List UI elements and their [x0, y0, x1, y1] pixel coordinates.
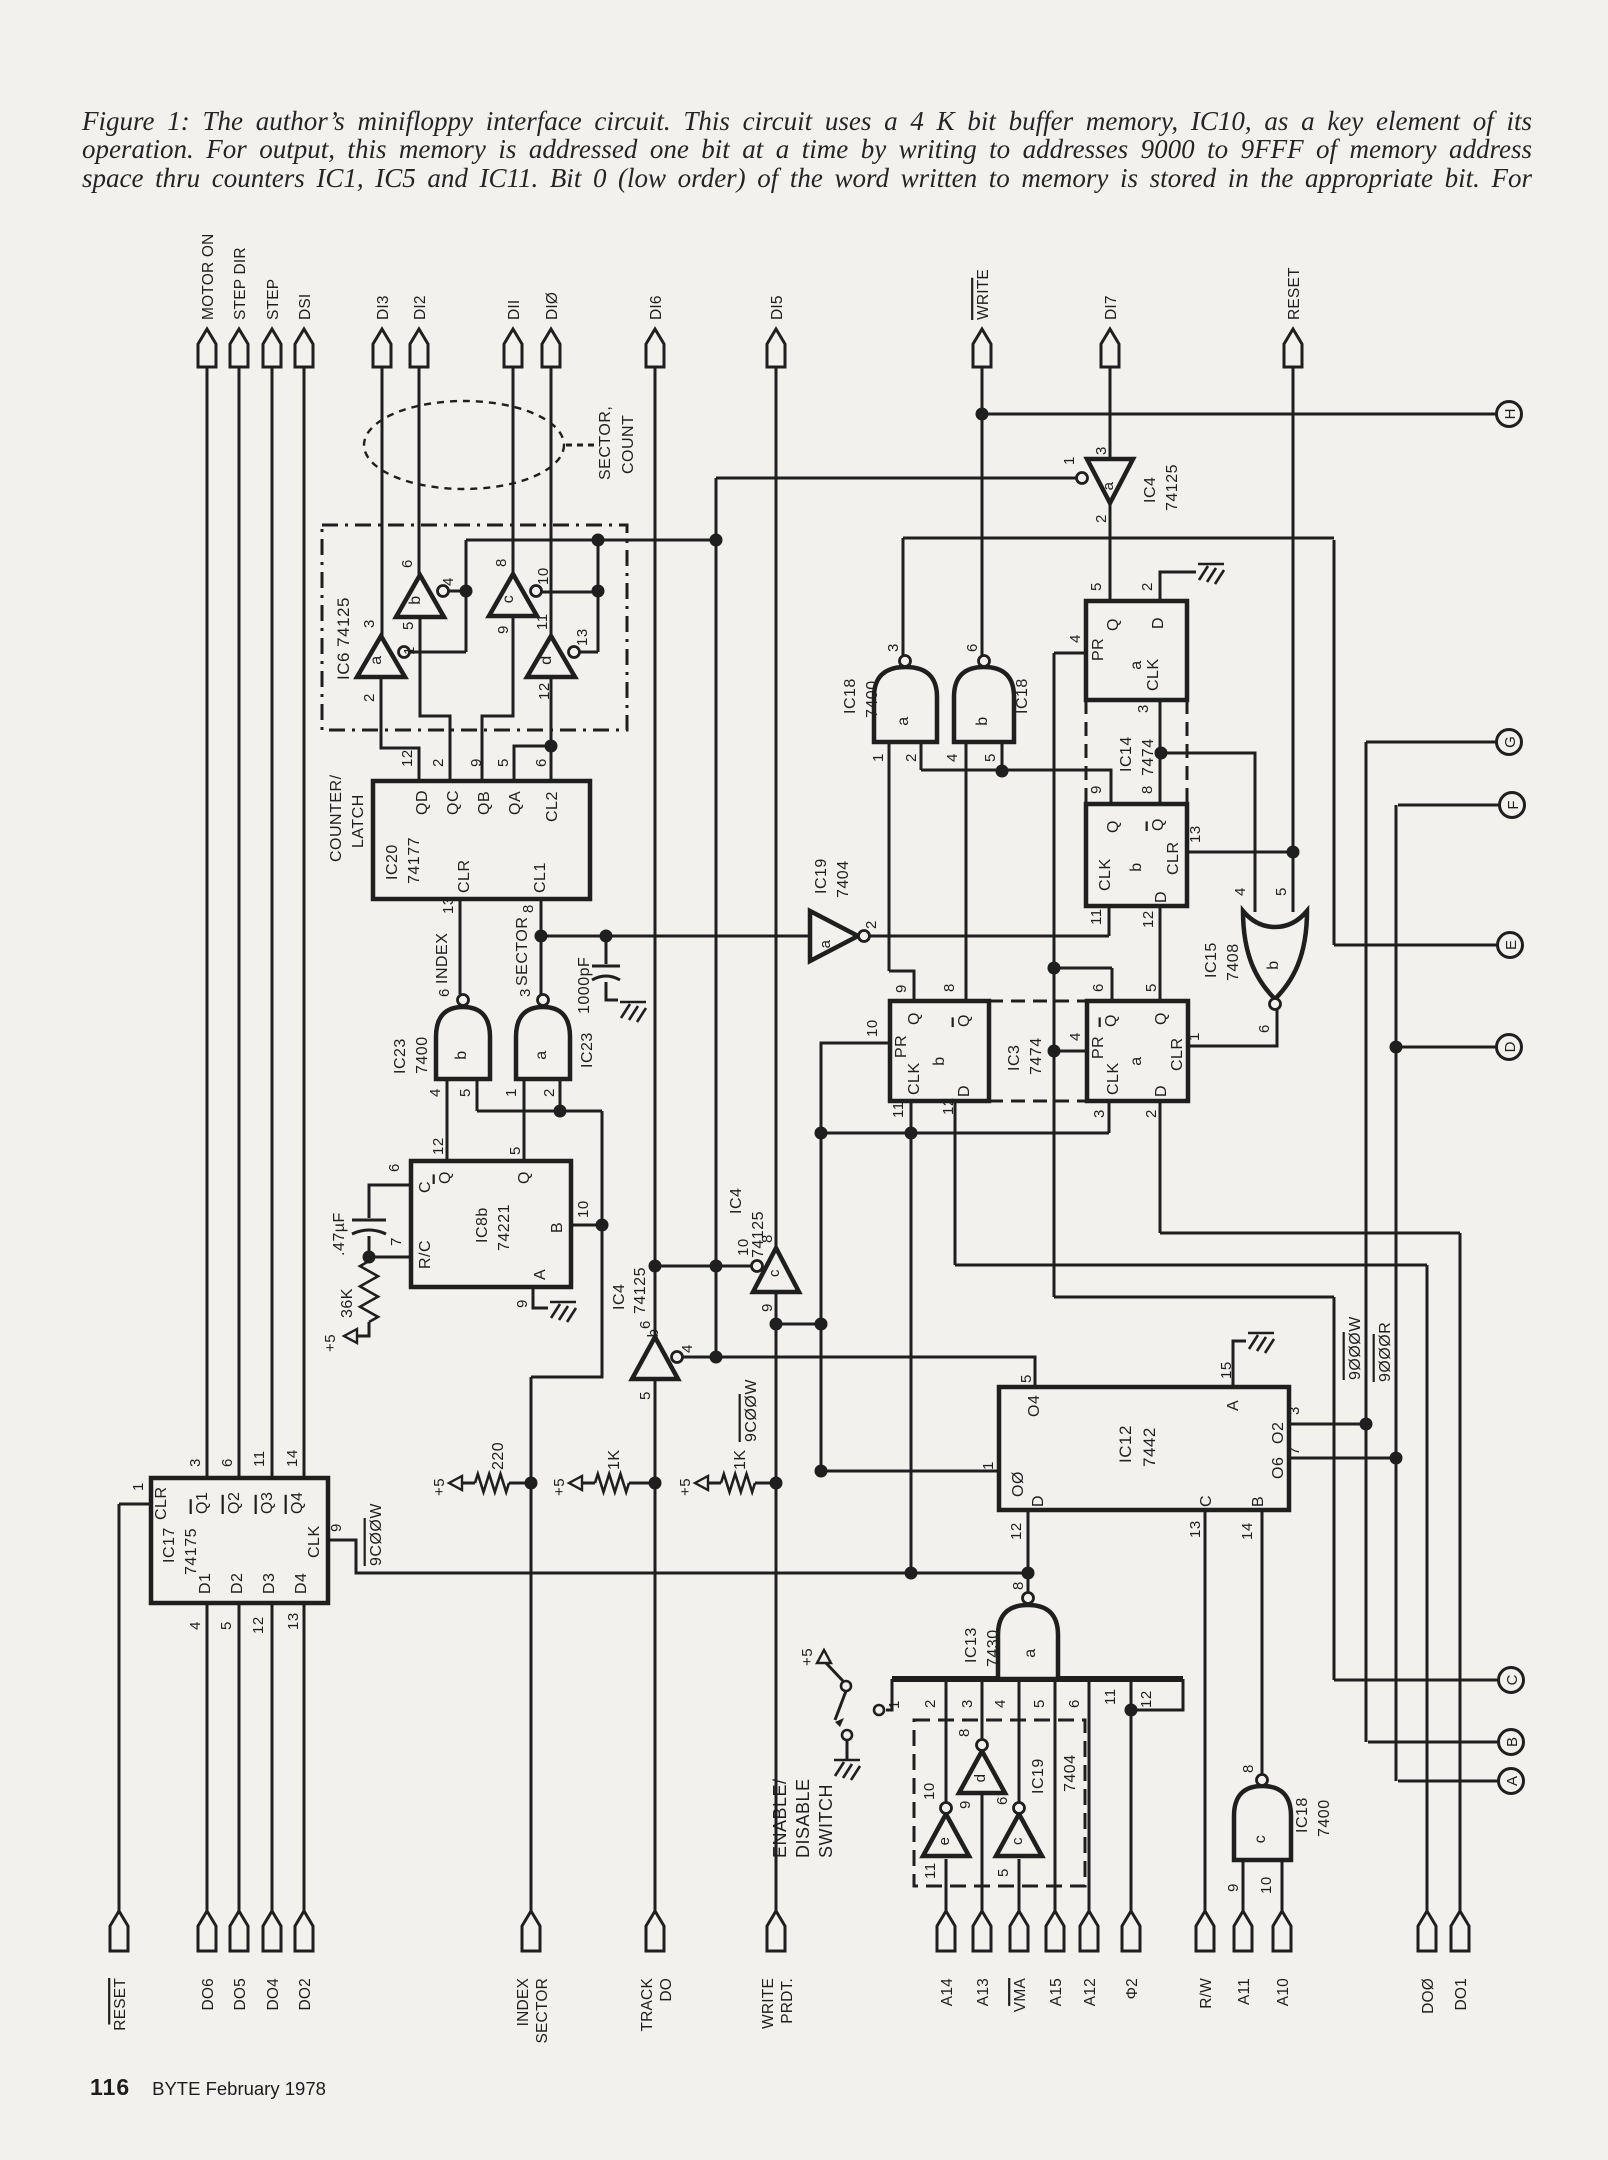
svg-text:Q4: Q4: [289, 1492, 306, 1514]
svg-text:c: c: [500, 595, 517, 604]
svg-text:IC19: IC19: [1030, 1758, 1047, 1794]
svg-text:1: 1: [886, 1700, 903, 1709]
svg-text:6: 6: [219, 1458, 236, 1467]
svg-text:9: 9: [328, 1523, 345, 1532]
svg-text:R/C: R/C: [417, 1240, 434, 1269]
svg-text:DI2: DI2: [412, 295, 429, 320]
svg-text:Q: Q: [906, 1012, 923, 1025]
svg-text:1000pF: 1000pF: [576, 957, 593, 1014]
svg-text:IC18: IC18: [1014, 678, 1031, 714]
svg-text:b: b: [1128, 862, 1145, 871]
svg-text:D2: D2: [229, 1573, 246, 1594]
svg-text:CL2: CL2: [544, 791, 561, 822]
svg-text:1: 1: [130, 1482, 147, 1491]
svg-text:A: A: [532, 1269, 549, 1280]
svg-text:9: 9: [495, 625, 512, 634]
svg-text:2: 2: [922, 1699, 939, 1708]
svg-text:5: 5: [1143, 983, 1160, 992]
svg-text:IC8b: IC8b: [474, 1207, 491, 1243]
svg-text:e: e: [936, 1837, 953, 1846]
svg-text:B: B: [1504, 1737, 1521, 1747]
svg-text:PRDT.: PRDT.: [779, 1978, 796, 2024]
svg-text:IC6 74125: IC6 74125: [334, 597, 353, 680]
svg-text:3: 3: [1286, 1406, 1303, 1415]
svg-text:CLR: CLR: [456, 859, 473, 893]
svg-text:CLR: CLR: [1165, 841, 1182, 875]
svg-text:A15: A15: [1048, 1978, 1065, 2006]
svg-text:+5: +5: [322, 1334, 339, 1352]
svg-text:d: d: [538, 655, 555, 664]
svg-text:74125: 74125: [632, 1267, 649, 1314]
svg-text:15: 15: [1218, 1361, 1235, 1379]
svg-text:F: F: [1505, 800, 1522, 809]
svg-text:VMA: VMA: [1012, 1978, 1029, 2013]
svg-text:12: 12: [430, 1137, 447, 1155]
svg-text:3: 3: [1093, 446, 1110, 455]
svg-text:QC: QC: [445, 790, 462, 815]
svg-text:CLK: CLK: [1145, 658, 1162, 691]
svg-text:4: 4: [992, 1699, 1009, 1708]
svg-text:A13: A13: [975, 1978, 992, 2006]
svg-text:13: 13: [1187, 825, 1204, 843]
svg-text:13: 13: [285, 1612, 302, 1630]
svg-text:b: b: [974, 716, 991, 725]
svg-text:7404: 7404: [1062, 1754, 1079, 1792]
svg-text:IC14: IC14: [1118, 736, 1135, 772]
svg-text:PR: PR: [1090, 1036, 1107, 1059]
svg-text:9ØØØR: 9ØØØR: [1377, 1322, 1394, 1382]
svg-text:IC23: IC23: [392, 1038, 409, 1074]
svg-text:12: 12: [1140, 910, 1157, 928]
svg-text:6: 6: [436, 988, 453, 997]
svg-text:74125: 74125: [1164, 464, 1181, 511]
svg-text:SECTOR: SECTOR: [514, 917, 531, 986]
svg-text:a: a: [1128, 660, 1145, 669]
svg-text:DO1: DO1: [1453, 1978, 1470, 2010]
svg-text:WRITE: WRITE: [760, 1978, 777, 2029]
svg-text:D: D: [1030, 1495, 1047, 1507]
svg-text:Q1: Q1: [194, 1492, 211, 1514]
svg-text:COUNTER/: COUNTER/: [328, 774, 345, 862]
svg-text:DOØ: DOØ: [1420, 1978, 1437, 2014]
svg-text:5: 5: [400, 621, 417, 630]
svg-text:8: 8: [1010, 1581, 1027, 1590]
svg-text:B: B: [549, 1222, 566, 1233]
svg-text:5: 5: [982, 753, 999, 762]
svg-text:SECTOR: SECTOR: [534, 1978, 551, 2044]
svg-text:9CØØW: 9CØØW: [368, 1503, 385, 1566]
svg-text:8: 8: [1139, 785, 1156, 794]
svg-text:A14: A14: [939, 1978, 956, 2006]
svg-text:a: a: [1022, 1648, 1039, 1657]
svg-text:DI6: DI6: [648, 295, 665, 320]
svg-text:9: 9: [468, 758, 485, 767]
svg-text:4: 4: [1232, 887, 1249, 896]
svg-text:7400: 7400: [1316, 1799, 1333, 1837]
svg-text:9: 9: [957, 1800, 974, 1809]
svg-text:7474: 7474: [1028, 1037, 1045, 1075]
svg-text:IC19: IC19: [813, 858, 830, 894]
svg-text:7430: 7430: [985, 1629, 1002, 1667]
svg-text:O6: O6: [1270, 1457, 1287, 1479]
svg-text:D: D: [956, 1085, 973, 1097]
svg-text:A11: A11: [1236, 1978, 1253, 2005]
svg-text:WRITE: WRITE: [975, 269, 992, 320]
svg-text:C: C: [417, 1181, 434, 1193]
svg-text:8: 8: [956, 1728, 973, 1737]
svg-text:3: 3: [517, 988, 534, 997]
svg-text:RESET: RESET: [112, 1978, 129, 2031]
svg-text:13: 13: [1187, 1520, 1204, 1538]
svg-text:6: 6: [533, 758, 550, 767]
svg-text:IC4: IC4: [728, 1188, 745, 1214]
svg-text:74221: 74221: [496, 1204, 513, 1251]
svg-text:36K: 36K: [339, 1288, 356, 1318]
svg-text:7: 7: [1286, 1446, 1303, 1455]
svg-text:DISABLE: DISABLE: [793, 1778, 813, 1858]
svg-text:74125: 74125: [750, 1211, 767, 1258]
svg-text:a: a: [817, 939, 834, 948]
svg-text:Q: Q: [516, 1171, 533, 1184]
svg-text:a: a: [895, 716, 912, 725]
svg-text:13: 13: [440, 896, 457, 914]
svg-text:10: 10: [1258, 1876, 1275, 1894]
svg-text:OØ: OØ: [1010, 1471, 1027, 1497]
svg-text:PR: PR: [1090, 638, 1107, 661]
svg-text:3: 3: [1091, 1109, 1108, 1118]
svg-text:14: 14: [1239, 1522, 1256, 1540]
svg-text:12: 12: [940, 1097, 957, 1115]
svg-text:11: 11: [922, 1862, 939, 1879]
svg-text:DO: DO: [658, 1978, 675, 2002]
svg-text:5: 5: [1273, 887, 1290, 896]
svg-text:b: b: [1265, 960, 1282, 969]
svg-text:7400: 7400: [864, 680, 881, 718]
svg-text:CLK: CLK: [1105, 1062, 1122, 1095]
svg-text:IC23: IC23: [579, 1032, 596, 1068]
svg-text:a: a: [368, 655, 385, 664]
svg-text:12: 12: [1008, 1522, 1025, 1540]
svg-text:1: 1: [503, 1088, 520, 1097]
svg-text:1: 1: [1061, 456, 1078, 465]
svg-text:STEP: STEP: [265, 279, 282, 320]
svg-text:11: 11: [890, 1101, 907, 1118]
svg-text:DO2: DO2: [297, 1978, 314, 2010]
svg-text:5: 5: [507, 1146, 524, 1155]
svg-text:11: 11: [1102, 1688, 1119, 1705]
svg-text:Q: Q: [1105, 618, 1122, 631]
svg-text:74177: 74177: [406, 837, 423, 884]
svg-text:C: C: [1198, 1495, 1215, 1507]
svg-text:A10: A10: [1275, 1978, 1292, 2006]
svg-text:10: 10: [864, 1019, 881, 1037]
svg-text:2: 2: [1143, 1109, 1160, 1118]
svg-text:Q: Q: [1153, 1012, 1170, 1025]
svg-text:5: 5: [457, 1088, 474, 1097]
svg-text:7400: 7400: [414, 1036, 431, 1074]
svg-text:8: 8: [1240, 1764, 1257, 1773]
svg-text:7404: 7404: [835, 860, 852, 898]
svg-text:Q: Q: [437, 1171, 454, 1184]
svg-text:CLK: CLK: [306, 1525, 323, 1558]
svg-text:O4: O4: [1026, 1395, 1043, 1417]
svg-text:2: 2: [1093, 514, 1110, 523]
svg-text:c: c: [766, 1269, 783, 1277]
svg-text:8: 8: [493, 558, 510, 567]
svg-text:4: 4: [1067, 1032, 1084, 1041]
svg-text:c: c: [1009, 1837, 1026, 1845]
svg-text:CLK: CLK: [906, 1062, 923, 1095]
svg-text:11: 11: [1088, 908, 1105, 925]
svg-text:RESET: RESET: [1286, 267, 1303, 320]
svg-text:IC3: IC3: [1006, 1045, 1023, 1071]
svg-text:+5: +5: [431, 1478, 448, 1496]
svg-text:3: 3: [361, 619, 378, 628]
svg-text:7442: 7442: [1140, 1427, 1159, 1467]
svg-text:4: 4: [1067, 634, 1084, 643]
svg-text:1: 1: [401, 646, 418, 655]
svg-text:DO4: DO4: [265, 1978, 282, 2011]
svg-text:1: 1: [980, 1461, 997, 1470]
svg-text:7: 7: [388, 1237, 405, 1246]
svg-text:C: C: [1504, 1674, 1521, 1685]
svg-text:9CØØW: 9CØØW: [743, 1379, 760, 1442]
svg-text:ENABLE/: ENABLE/: [770, 1778, 790, 1858]
svg-text:DIØ: DIØ: [544, 292, 561, 320]
svg-text:74175: 74175: [183, 1528, 200, 1575]
svg-text:STEP DIR: STEP DIR: [232, 247, 249, 320]
svg-text:INDEX: INDEX: [434, 933, 451, 984]
svg-text:IC17: IC17: [161, 1527, 178, 1563]
svg-text:MOTOR ON: MOTOR ON: [200, 233, 217, 320]
svg-text:QD: QD: [414, 790, 431, 815]
svg-text:O2: O2: [1270, 1422, 1287, 1444]
svg-text:.47µF: .47µF: [331, 1212, 348, 1256]
svg-text:5: 5: [495, 758, 512, 767]
svg-text:A: A: [1504, 1776, 1521, 1786]
svg-text:9: 9: [1225, 1883, 1242, 1892]
svg-text:4: 4: [187, 1621, 204, 1630]
svg-text:9: 9: [759, 1303, 776, 1312]
svg-text:5: 5: [995, 1868, 1012, 1877]
svg-text:2: 2: [903, 753, 920, 762]
svg-text:14: 14: [284, 1449, 301, 1467]
svg-text:6: 6: [386, 1163, 403, 1172]
svg-text:b: b: [407, 595, 424, 604]
svg-text:IC13: IC13: [963, 1627, 980, 1663]
svg-text:CLK: CLK: [1097, 858, 1114, 891]
svg-text:8: 8: [520, 904, 537, 913]
svg-text:COUNT: COUNT: [620, 415, 637, 474]
svg-text:D4: D4: [293, 1573, 310, 1594]
svg-text:8: 8: [941, 983, 958, 992]
svg-text:Q2: Q2: [226, 1492, 243, 1514]
svg-text:D3: D3: [261, 1573, 278, 1594]
svg-text:IC20: IC20: [384, 844, 401, 880]
svg-text:3: 3: [187, 1458, 204, 1467]
svg-text:5: 5: [1031, 1699, 1048, 1708]
svg-text:DSI: DSI: [297, 294, 314, 320]
svg-text:7408: 7408: [1225, 943, 1242, 981]
svg-text:Q3: Q3: [259, 1492, 276, 1514]
svg-text:11: 11: [251, 1450, 268, 1467]
svg-text:5: 5: [1088, 582, 1105, 591]
svg-text:DI5: DI5: [769, 295, 786, 320]
svg-text:4: 4: [427, 1088, 444, 1097]
svg-text:12: 12: [1138, 1690, 1155, 1708]
svg-text:9ØØØW: 9ØØØW: [1347, 1316, 1364, 1380]
svg-text:D: D: [1153, 1085, 1170, 1097]
svg-text:5: 5: [218, 1621, 235, 1630]
svg-text:D: D: [1150, 617, 1167, 629]
svg-text:DO5: DO5: [232, 1978, 249, 2010]
svg-text:12: 12: [250, 1616, 267, 1634]
svg-text:2: 2: [1139, 582, 1156, 591]
svg-text:Q: Q: [1105, 820, 1122, 833]
svg-text:3: 3: [959, 1699, 976, 1708]
svg-text:2: 2: [361, 693, 378, 702]
svg-text:IC18: IC18: [842, 678, 859, 714]
svg-text:13: 13: [574, 628, 591, 646]
svg-text:4: 4: [944, 753, 961, 762]
svg-text:6: 6: [637, 1320, 654, 1329]
svg-text:1: 1: [870, 753, 887, 762]
svg-text:3: 3: [1135, 704, 1152, 713]
svg-text:A: A: [1225, 1400, 1242, 1411]
svg-text:7474: 7474: [1140, 738, 1157, 776]
svg-text:QB: QB: [476, 791, 493, 815]
svg-text:4: 4: [440, 577, 457, 586]
svg-text:c: c: [1252, 1835, 1269, 1844]
svg-text:R/W: R/W: [1198, 1978, 1215, 2009]
svg-text:2: 2: [430, 758, 447, 767]
svg-text:Φ2: Φ2: [1124, 1978, 1141, 1999]
svg-text:CL1: CL1: [532, 862, 549, 893]
svg-text:Q: Q: [1150, 818, 1167, 831]
svg-text:a: a: [533, 1050, 550, 1059]
svg-text:2: 2: [541, 1088, 558, 1097]
svg-text:SECTOR,: SECTOR,: [597, 406, 614, 480]
svg-text:D: D: [1502, 1041, 1519, 1052]
svg-text:1K: 1K: [606, 1449, 623, 1470]
svg-text:IC4: IC4: [1142, 477, 1159, 503]
svg-text:SWITCH: SWITCH: [816, 1784, 836, 1858]
svg-text:b: b: [931, 1056, 948, 1065]
svg-text:a: a: [1128, 1056, 1145, 1065]
svg-text:IC18: IC18: [1294, 1797, 1311, 1833]
svg-text:10: 10: [921, 1782, 938, 1800]
svg-text:CLR: CLR: [153, 1486, 170, 1520]
svg-text:6: 6: [1066, 1699, 1083, 1708]
svg-text:1: 1: [1186, 1032, 1203, 1041]
svg-text:CLR: CLR: [1169, 1037, 1186, 1071]
svg-text:DI7: DI7: [1103, 295, 1120, 320]
svg-text:9: 9: [1088, 785, 1105, 794]
svg-text:b: b: [453, 1050, 470, 1059]
svg-text:6: 6: [1090, 983, 1107, 992]
svg-text:5: 5: [637, 1391, 654, 1400]
svg-text:220: 220: [490, 1442, 507, 1470]
svg-text:6: 6: [1256, 1024, 1273, 1033]
svg-text:D1: D1: [197, 1573, 214, 1594]
svg-text:+5: +5: [799, 1648, 816, 1666]
svg-text:PR: PR: [893, 1035, 910, 1058]
svg-text:LATCH: LATCH: [350, 794, 367, 848]
svg-text:D: D: [1153, 891, 1170, 903]
svg-text:1K: 1K: [732, 1449, 749, 1470]
svg-text:IC4: IC4: [611, 1284, 628, 1310]
svg-text:6: 6: [994, 1796, 1011, 1805]
svg-text:IC15: IC15: [1203, 942, 1220, 978]
svg-text:B: B: [1250, 1496, 1267, 1507]
svg-text:A12: A12: [1082, 1978, 1099, 2006]
svg-text:H: H: [1502, 409, 1519, 420]
svg-text:DI3: DI3: [375, 295, 392, 320]
svg-text:11: 11: [534, 613, 551, 630]
svg-text:QA: QA: [507, 791, 524, 815]
svg-text:12: 12: [536, 682, 553, 700]
svg-text:10: 10: [535, 567, 552, 585]
svg-text:d: d: [972, 1774, 989, 1783]
svg-text:12: 12: [399, 749, 416, 767]
svg-text:9: 9: [514, 1299, 531, 1308]
svg-text:2: 2: [863, 920, 880, 929]
svg-text:5: 5: [1018, 1374, 1035, 1383]
svg-text:DII: DII: [506, 300, 523, 320]
svg-text:+5: +5: [551, 1478, 568, 1496]
svg-text:G: G: [1502, 736, 1519, 748]
svg-text:3: 3: [885, 643, 902, 652]
svg-text:TRACK: TRACK: [639, 1978, 656, 2032]
svg-text:4: 4: [679, 1344, 696, 1353]
svg-text:IC12: IC12: [1116, 1425, 1135, 1463]
svg-text:+5: +5: [677, 1478, 694, 1496]
svg-text:6: 6: [399, 559, 416, 568]
svg-text:Q: Q: [1103, 1014, 1120, 1027]
svg-text:6: 6: [964, 643, 981, 652]
svg-text:10: 10: [575, 1200, 592, 1218]
svg-text:E: E: [1503, 940, 1520, 950]
svg-text:Q: Q: [956, 1014, 973, 1027]
svg-text:9: 9: [893, 984, 910, 993]
svg-text:a: a: [1100, 481, 1117, 490]
svg-text:INDEX: INDEX: [515, 1978, 532, 2027]
svg-text:DO6: DO6: [200, 1978, 217, 2010]
